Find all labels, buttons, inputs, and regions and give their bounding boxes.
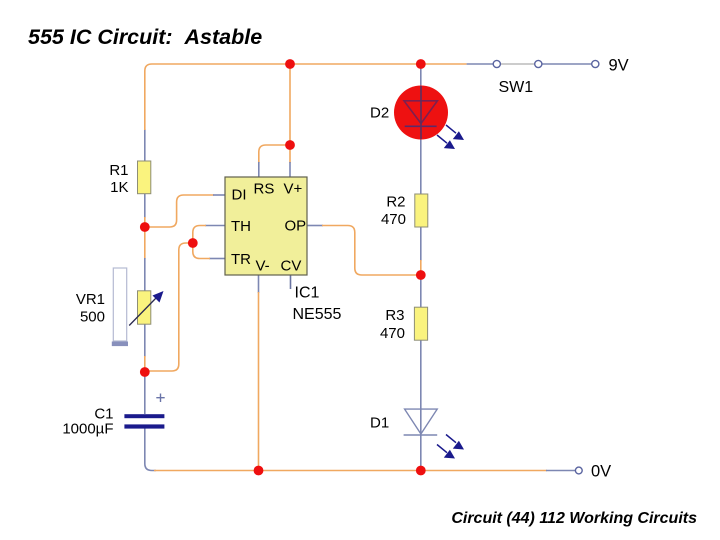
switch SW1 blade bbox=[501, 63, 535, 65]
resistor R3 bbox=[414, 307, 427, 340]
svg-text:OP: OP bbox=[285, 218, 307, 235]
wire: TH pin to node B (orange) bbox=[193, 226, 206, 241]
svg-text:VR1: VR1 bbox=[76, 291, 105, 308]
svg-text:SW1: SW1 bbox=[499, 79, 534, 96]
node: 9V supply terminal label bbox=[609, 57, 629, 75]
potentiometer VR1 body bbox=[138, 291, 151, 324]
wire: rail stub to SW1 (slate) bbox=[467, 63, 493, 65]
node: 0V terminal label bbox=[591, 463, 611, 481]
wire: R3 bottom through D1 to ground rail (slate) bbox=[420, 340, 422, 470]
LED D2 diode symbol bbox=[404, 86, 437, 139]
pin label OP bbox=[285, 218, 307, 235]
label: D2 bbox=[370, 105, 389, 122]
label: D1 bbox=[370, 415, 389, 432]
wire: V+ pin feed (orange) bbox=[289, 145, 291, 163]
pin label CV bbox=[281, 258, 302, 275]
pin label DI bbox=[232, 187, 247, 204]
node D: junction R2/R3/OP bbox=[416, 270, 426, 280]
svg-text:RS: RS bbox=[254, 181, 275, 198]
svg-text:R1: R1 bbox=[109, 162, 128, 179]
wire: TR pin lead (slate) bbox=[209, 258, 225, 260]
wire: C1 bottom lead and corner to ground rail (slate) bbox=[145, 429, 156, 471]
svg-text:NE555: NE555 bbox=[293, 306, 342, 323]
svg-text:470: 470 bbox=[381, 211, 406, 228]
label: R3 value bbox=[380, 307, 405, 342]
svg-text:TH: TH bbox=[231, 218, 251, 235]
svg-text:555 IC Circuit: Astable: 555 IC Circuit: Astable bbox=[28, 25, 262, 49]
wire: R1 bottom to node A (orange) bbox=[144, 217, 146, 227]
potentiometer VR1 arrow bbox=[129, 291, 163, 326]
capacitor C1 polarity plus bbox=[156, 394, 164, 403]
wire: V+ pin lead (slate) bbox=[289, 162, 291, 177]
node: junction rail/V- bbox=[254, 466, 264, 476]
node: 0V terminal circle bbox=[575, 467, 582, 474]
label: SW1 bbox=[499, 79, 534, 96]
wire: node A down to VR1 (orange) bbox=[144, 227, 146, 259]
svg-text:IC1: IC1 bbox=[295, 285, 320, 302]
wire: RS pin feed (orange, corner) bbox=[259, 145, 287, 163]
switch SW1 terminal circles bbox=[493, 60, 599, 67]
pin label RS bbox=[254, 181, 275, 198]
label: IC1 NE555 bbox=[293, 285, 342, 324]
title: 555 IC Circuit: Astable bbox=[28, 25, 262, 49]
svg-text:R2: R2 bbox=[386, 194, 405, 211]
wire: R2 bottom lead (slate) bbox=[420, 227, 422, 261]
wire: vertical from rail to IC supply node (orange) bbox=[289, 64, 291, 141]
node: junction rail/D2 bbox=[416, 59, 426, 69]
wire: bottom 0V rail (orange) bbox=[154, 470, 547, 472]
pin label V+ bbox=[284, 181, 303, 198]
svg-text:500: 500 bbox=[80, 309, 105, 326]
wire: V- pin to ground rail (orange) bbox=[258, 292, 260, 470]
wire: D2 anode from rail through LED to R2 (slate) bbox=[420, 64, 422, 194]
wire: R1 top lead (slate) bbox=[144, 129, 146, 161]
wire: node C to C1 top plate (slate) bbox=[144, 372, 146, 414]
pin: CV stub (slate, unconnected) bbox=[290, 275, 292, 289]
switch SW1 wire between poles bbox=[542, 63, 592, 65]
label: C1 value bbox=[62, 406, 113, 438]
svg-text:0V: 0V bbox=[591, 463, 611, 481]
svg-text:R3: R3 bbox=[385, 307, 404, 324]
resistor R2 bbox=[415, 194, 428, 227]
wire: V- pin lead (slate) bbox=[258, 275, 260, 293]
svg-text:D2: D2 bbox=[370, 105, 389, 122]
node: junction RS/V+ bbox=[285, 140, 295, 150]
node: junction rail/D1 bbox=[416, 466, 426, 476]
LED D1 symbol bbox=[404, 409, 438, 435]
wire: node A to DI pin (orange, two corners) bbox=[148, 195, 214, 227]
node: junction rail/IC supply bbox=[285, 59, 295, 69]
svg-text:DI: DI bbox=[232, 187, 247, 204]
svg-text:CV: CV bbox=[281, 258, 302, 275]
wire: node B down to VR1 bottom node (orange) bbox=[148, 243, 190, 371]
svg-text:V+: V+ bbox=[284, 181, 303, 198]
node B: junction TH/TR bbox=[188, 238, 198, 248]
svg-text:1K: 1K bbox=[110, 179, 128, 196]
wire: TR pin to node B (orange) bbox=[193, 246, 210, 259]
potentiometer VR1 wiper track bbox=[112, 268, 128, 346]
node A: junction R1/VR1/DI bbox=[140, 222, 150, 232]
wire: VR1 top lead (slate) bbox=[144, 258, 146, 291]
node C: junction VR1/C1 bbox=[140, 367, 150, 377]
label: R1 value bbox=[109, 162, 128, 196]
wire: DI pin lead (slate) bbox=[213, 194, 225, 196]
pin label TH bbox=[231, 218, 251, 235]
svg-text:V-: V- bbox=[256, 258, 270, 275]
svg-text:Circuit (44) 112 Working Circu: Circuit (44) 112 Working Circuits bbox=[451, 510, 697, 527]
op-amp/timer IC1 body bbox=[225, 177, 307, 275]
resistor R1 bbox=[138, 161, 151, 194]
wire: R2 bottom to node D (orange) bbox=[420, 260, 422, 275]
pin label TR bbox=[231, 251, 251, 268]
wire: OP pin lead (slate) bbox=[307, 225, 323, 227]
pin label V- bbox=[256, 258, 270, 275]
svg-text:470: 470 bbox=[380, 325, 405, 342]
wire: RS pin lead (slate) bbox=[258, 162, 260, 177]
wire: VR1 bottom lead (slate) bbox=[144, 324, 146, 357]
svg-text:9V: 9V bbox=[609, 57, 629, 75]
LED D1 light arrows bbox=[437, 435, 464, 459]
wire: OP output to LED divider node (orange) bbox=[322, 226, 417, 276]
capacitor C1 (electrolytic plates) bbox=[124, 414, 164, 428]
wire: rail stub to 0V terminal (slate) bbox=[546, 470, 575, 472]
label: R2 value bbox=[381, 194, 406, 229]
wire: VR1 lead to node C (orange) bbox=[144, 356, 146, 372]
label: VR1 value bbox=[76, 291, 105, 326]
wire: TH pin lead (slate) bbox=[205, 225, 225, 227]
svg-text:1000µF: 1000µF bbox=[62, 421, 113, 438]
LED D2 light arrows bbox=[437, 125, 464, 149]
wire: R1 bottom lead (slate) bbox=[144, 194, 146, 218]
svg-text:D1: D1 bbox=[370, 415, 389, 432]
wire: node D to R3 top (slate) bbox=[420, 275, 422, 307]
svg-text:TR: TR bbox=[231, 251, 251, 268]
wire: top positive rail from R1 corner to switch bbox=[145, 64, 467, 130]
caption: Circuit (44) 112 Working Circuits bbox=[451, 510, 697, 527]
LED D2 body bbox=[394, 86, 448, 140]
